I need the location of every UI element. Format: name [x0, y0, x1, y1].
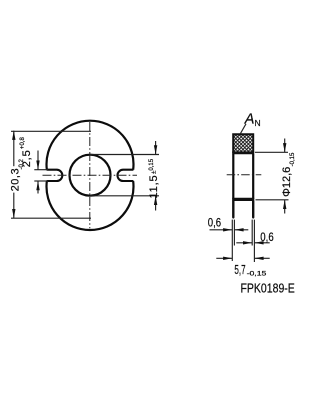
svg-text:N: N — [255, 118, 261, 128]
left wall lower stub — [232, 201, 234, 217]
extension lines below right wall — [251, 220, 253, 246]
right wall of tube — [252, 154, 254, 200]
dim line left part with arrow — [210, 229, 233, 231]
dim line bottom stem — [37, 181, 39, 194]
side view centerline — [227, 174, 262, 176]
arrowhead down — [154, 145, 157, 154]
arrowhead up to slot bottom — [36, 181, 39, 190]
extension line bottom — [90, 195, 159, 197]
extension lines below left wall — [231, 220, 233, 261]
dim line top stem — [37, 151, 39, 170]
outer circle (top arc, interrupted by side slots) — [46, 121, 133, 170]
extension line top — [90, 154, 159, 156]
left wall of tube — [232, 154, 234, 200]
hatched cross-section A_N — [233, 134, 253, 153]
dim line left part with arrow — [216, 257, 232, 259]
arrowhead down — [283, 143, 286, 152]
inner circle (hole 11,5) — [70, 155, 111, 196]
extension line top — [255, 151, 288, 153]
svg-text:5,7: 5,7 — [234, 262, 245, 277]
extension line top — [11, 130, 91, 132]
vertical centerline of front view — [89, 122, 91, 228]
arrowhead down — [12, 209, 15, 218]
dim line right part with arrow — [254, 242, 269, 244]
extension line bottom — [256, 199, 289, 201]
arrowhead up — [12, 131, 15, 140]
slot extension line bottom (for 2,5 dim) — [34, 180, 48, 182]
svg-text:-0,15: -0,15 — [247, 271, 267, 278]
right slot — [117, 170, 133, 181]
arrowhead down to slot top — [36, 161, 39, 170]
dim line right part with arrow — [254, 257, 269, 259]
extension line bottom — [11, 217, 91, 219]
dim line top stem — [155, 141, 157, 155]
slot extension line top (for 2,5 dim) — [34, 169, 48, 171]
thick bar (far inner surface) — [232, 198, 254, 201]
arrowhead up — [283, 200, 286, 209]
svg-text:FPK0189-E: FPK0189-E — [241, 282, 295, 296]
outer circle (bottom arc) — [46, 181, 133, 230]
left slot — [47, 170, 63, 181]
leader line A_N — [240, 124, 246, 134]
dim line top stem — [284, 139, 286, 153]
arrowhead up — [154, 196, 157, 205]
dimension line 20,3 (broken for text) — [13, 131, 15, 167]
dim line bottom stem — [155, 196, 157, 211]
thick bottom edge of hatched area — [232, 151, 254, 154]
right wall lower stub — [252, 201, 254, 217]
horizontal centerline of front view — [43, 174, 138, 176]
svg-text:0,6: 0,6 — [208, 218, 221, 230]
dim line right part with arrow — [234, 229, 248, 231]
dim line bottom stem — [284, 200, 286, 214]
svg-text:0,6: 0,6 — [260, 230, 274, 244]
dim line left part with arrow — [236, 242, 252, 244]
